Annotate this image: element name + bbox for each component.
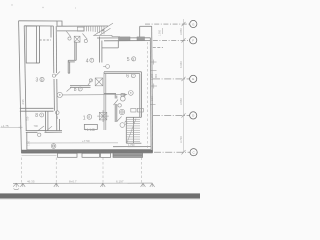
svg-text:4.040: 4.040 [179,61,183,68]
svg-text:7: 7 [79,88,81,92]
svg-text:F: F [192,39,194,43]
svg-text:7: 7 [41,114,43,118]
svg-text:2.95: 2.95 [21,99,25,105]
svg-text:6.197: 6.197 [116,180,124,184]
svg-text:46.35: 46.35 [27,180,35,184]
svg-text:E: E [192,77,194,81]
svg-text:8: 8 [74,87,77,93]
svg-text:8+0.7: 8+0.7 [69,180,77,184]
svg-text:3.850: 3.850 [179,28,183,35]
svg-text:790: 790 [34,124,39,128]
svg-text:3: 3 [36,78,39,84]
svg-text:3.700: 3.700 [179,136,183,143]
svg-text:1.300: 1.300 [151,73,154,80]
svg-text:900: 900 [155,73,158,78]
svg-text:2.10: 2.10 [151,96,154,101]
svg-text:3.650: 3.650 [179,98,183,105]
svg-text:4: 4 [86,58,89,64]
svg-text:7: 7 [132,74,134,78]
svg-text:1.760: 1.760 [128,143,135,147]
svg-text:750: 750 [26,116,30,121]
svg-text:8: 8 [41,78,43,82]
svg-text:6: 6 [126,74,129,80]
svg-text:8: 8 [88,115,90,119]
svg-text:8: 8 [132,57,134,61]
svg-text:8: 8 [35,113,38,119]
svg-text:1: 1 [83,115,86,121]
svg-text:5: 5 [127,57,130,63]
svg-text:+7.50: +7.50 [82,139,90,143]
svg-text:7: 7 [91,59,93,63]
svg-text:+1.148: +1.148 [85,128,95,132]
svg-text:1.950: 1.950 [159,29,162,36]
